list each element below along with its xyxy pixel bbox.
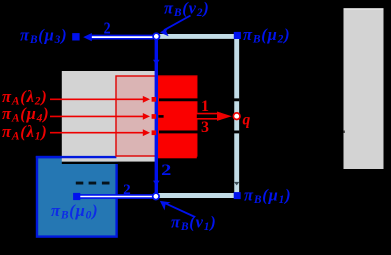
svg-text:2: 2: [161, 162, 172, 179]
dashes inside teal rect: [76, 182, 84, 185]
teal rectangle (pi_B(mu_0) box): [37, 157, 117, 237]
red double arrow to q: [197, 113, 221, 120]
gray rectangle (left): [62, 71, 157, 162]
red arrow row 2: [50, 115, 144, 117]
red arrow row 3: [50, 132, 144, 134]
svg-text:πB(μ3): πB(μ3): [20, 26, 67, 47]
marker square pi_B(mu_0): [73, 193, 80, 200]
black row line 2 stub: [158, 115, 163, 118]
marker square pi_B(mu_1): [234, 192, 241, 199]
blue vertical arrowhead lower: [153, 181, 160, 186]
node circle top: [153, 33, 159, 39]
top-left arrowhead: [83, 33, 92, 41]
gray rectangle bottom black border: [62, 162, 157, 164]
node circle bottom: [153, 193, 159, 199]
svg-text:q: q: [243, 112, 251, 129]
svg-text:2: 2: [104, 18, 111, 37]
pale pipe: bottom horizontal line: [156, 193, 239, 198]
svg-text:πA(λ1): πA(λ1): [2, 122, 48, 143]
black row line 3: [159, 130, 239, 133]
marker square pi_B(mu_3): [72, 33, 79, 40]
pointer arrow to nu2 node: [164, 16, 191, 31]
svg-text:πB(μ0): πB(μ0): [51, 201, 98, 222]
pointer arrow to nu1 node: [165, 203, 195, 217]
top-left double arrow shaft: [91, 35, 154, 40]
blue vertical line: [155, 36, 158, 196]
red marker square row1: [152, 97, 157, 102]
pale pipe: top horizontal line: [156, 34, 239, 39]
svg-text:πB(ν1): πB(ν1): [171, 213, 217, 234]
svg-text:πB(μ2): πB(μ2): [243, 25, 290, 46]
red marker square row3: [152, 130, 157, 135]
teal top border segment over gray: [36, 156, 117, 158]
red rectangle: [158, 76, 197, 158]
bottom-left double arrow shaft: [79, 194, 153, 199]
blue vertical arrowhead upper: [153, 60, 160, 65]
marker square pi_B(mu_2): [234, 32, 241, 39]
svg-text:2: 2: [123, 182, 131, 198]
red marker square row2: [152, 114, 157, 119]
svg-text:3: 3: [201, 119, 209, 136]
svg-text:1: 1: [201, 98, 209, 115]
dark arrow mark on pale vertical line: [234, 182, 240, 186]
svg-text:πB(μ1): πB(μ1): [244, 186, 291, 207]
pink transparent rectangle: [116, 76, 197, 156]
q node circle: [233, 113, 240, 120]
pale pipe: right vertical line: [234, 34, 239, 198]
svg-text:πB(ν2): πB(ν2): [164, 0, 210, 19]
right gray rectangle: [344, 8, 384, 169]
red arrow row 1: [50, 98, 144, 100]
black row line 1: [159, 98, 239, 101]
